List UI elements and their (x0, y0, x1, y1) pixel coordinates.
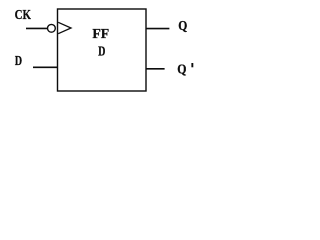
wire CK input (26, 27, 48, 29)
svg-text:D: D (15, 53, 22, 68)
wire Q output (146, 28, 169, 30)
svg-text:Q: Q (177, 62, 186, 77)
apostrophe of Q' (191, 63, 193, 67)
flip-flop body (FF D) (58, 9, 147, 91)
svg-text:CK: CK (15, 8, 31, 23)
wire Q' output (146, 68, 165, 70)
svg-text:FF: FF (92, 27, 109, 42)
svg-text:D: D (98, 43, 105, 58)
clock edge triangle (58, 22, 71, 33)
wire D input (33, 66, 58, 68)
svg-text:Q: Q (178, 19, 187, 34)
inversion bubble on CK (48, 24, 56, 32)
